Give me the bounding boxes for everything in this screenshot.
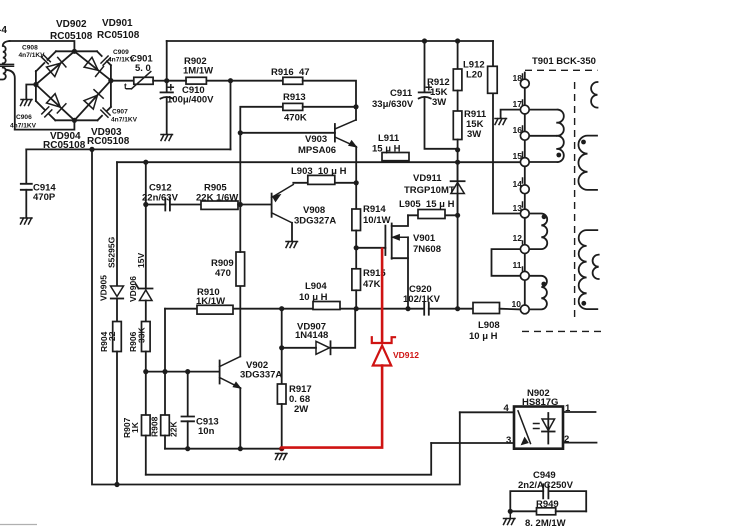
capacitor C907 on bottom-right corner diagonal bbox=[98, 107, 138, 124]
node emitter run C913 bbox=[185, 446, 190, 451]
filter choke lower winding bbox=[0, 68, 6, 80]
svg-text:C906: C906 bbox=[16, 114, 32, 121]
node C911/R911 junction bbox=[455, 147, 460, 152]
svg-text:12: 12 bbox=[513, 233, 523, 243]
svg-text:3: 3 bbox=[506, 435, 511, 446]
ground chassis at emitter run bbox=[276, 454, 288, 460]
thermistor C901 bbox=[124, 54, 153, 92]
wire AC1 top: choke to bridge top node bbox=[10, 41, 75, 51]
svg-text:-4: -4 bbox=[0, 25, 7, 36]
wire choke lower output to AC2 riser bbox=[6, 70, 15, 130]
node bridge right bbox=[108, 78, 113, 83]
T901 pin 13 bbox=[513, 202, 530, 218]
node R913/V903 base junction bbox=[238, 130, 243, 135]
svg-text:33K: 33K bbox=[137, 327, 147, 343]
node emitter run V902 bbox=[238, 446, 243, 451]
svg-text:2W: 2W bbox=[294, 404, 308, 415]
svg-text:R916 47: R916 47 bbox=[271, 67, 310, 78]
svg-text:470P: 470P bbox=[33, 192, 56, 203]
resistor R905 bbox=[196, 183, 241, 210]
ground chassis at R949 bbox=[504, 511, 516, 524]
svg-text:C907: C907 bbox=[112, 109, 128, 116]
svg-text:10: 10 bbox=[512, 299, 522, 309]
T901 pin 12 bbox=[513, 233, 530, 254]
node base line R906/R907 bbox=[143, 369, 148, 374]
svg-text:VD902: VD902 bbox=[56, 19, 87, 30]
secondary winding W2 polarity dot bbox=[581, 140, 586, 145]
ground chassis V908 emitter bbox=[286, 242, 298, 248]
T901 pin 10 bbox=[512, 299, 530, 314]
wire L912 column to T901 pin13 bbox=[493, 213, 520, 215]
resistor R912 bbox=[427, 41, 462, 108]
resistor R910 bbox=[196, 287, 233, 314]
svg-text:L908: L908 bbox=[478, 320, 500, 331]
resistor R913 bbox=[283, 92, 356, 124]
svg-text:18: 18 bbox=[513, 73, 523, 83]
svg-text:3W: 3W bbox=[432, 97, 446, 108]
node VD907/R917 junction bbox=[279, 345, 284, 350]
transistor V902 bbox=[220, 357, 283, 389]
node L1 outer-frame junction bbox=[89, 147, 94, 152]
zener VD906 bbox=[128, 253, 153, 322]
wire L1 left end down to C914 bbox=[25, 149, 27, 183]
svg-text:HS817G: HS817G bbox=[522, 397, 558, 408]
svg-text:1K: 1K bbox=[130, 421, 140, 433]
inductor L911 on L2 bbox=[372, 133, 409, 161]
wire opto pin1 bbox=[563, 411, 596, 413]
svg-text:13: 13 bbox=[513, 203, 523, 213]
node VD905 column on opto pin4 run bbox=[114, 482, 119, 487]
filter choke L (left edge, cut) upper winding bbox=[3, 41, 10, 63]
svg-text:V903: V903 bbox=[305, 134, 327, 145]
node gate junction bbox=[354, 245, 359, 250]
node A junction bbox=[164, 78, 169, 83]
svg-text:L903 10 μ H: L903 10 μ H bbox=[291, 166, 347, 177]
svg-text:L20: L20 bbox=[466, 70, 482, 81]
bridge outer octagon right flat bbox=[110, 65, 112, 107]
capacitor C906 on bottom-left corner diagonal bbox=[10, 101, 55, 130]
wire V908 emitter to ground bbox=[291, 223, 293, 241]
wire drain column down to out rail bbox=[457, 162, 459, 309]
capacitor C914 bbox=[21, 183, 57, 218]
T901 pin 11 bbox=[513, 260, 530, 280]
svg-text:14: 14 bbox=[513, 179, 523, 189]
svg-text:22K 1/6W: 22K 1/6W bbox=[196, 193, 238, 204]
capacitor C910 electrolytic bbox=[161, 81, 215, 134]
T901 pin 14 bbox=[513, 178, 530, 194]
svg-text:1M/1W: 1M/1W bbox=[183, 66, 213, 77]
svg-text:V908: V908 bbox=[303, 205, 325, 216]
svg-text:MPSA06: MPSA06 bbox=[298, 145, 336, 156]
svg-text:VD912: VD912 bbox=[393, 350, 419, 360]
svg-text:VD906: VD906 bbox=[128, 276, 138, 302]
svg-text:10 μ H: 10 μ H bbox=[299, 292, 328, 303]
capacitor C920 bbox=[403, 284, 473, 315]
node top rail C911 bbox=[422, 38, 427, 43]
svg-text:3W: 3W bbox=[467, 129, 481, 140]
wire frame R907 to opto pin3 run bbox=[146, 443, 431, 475]
svg-text:10n: 10n bbox=[198, 426, 215, 437]
svg-text:15V: 15V bbox=[136, 253, 146, 268]
secondary winding W3 bbox=[579, 230, 598, 309]
svg-text:10 μ H: 10 μ H bbox=[469, 331, 498, 342]
zener VD912 (red) bbox=[282, 249, 420, 448]
wire V908 base bbox=[240, 204, 271, 206]
node L2 R906 tap bbox=[143, 160, 148, 165]
svg-text:4n7/1KV: 4n7/1KV bbox=[10, 123, 37, 130]
svg-text:22n/63V: 22n/63V bbox=[142, 193, 179, 204]
inductor L903 bbox=[291, 166, 356, 184]
svg-text:RC05108: RC05108 bbox=[87, 136, 130, 147]
svg-text:17: 17 bbox=[513, 99, 523, 109]
wire V903 emitter down to L903 node bbox=[355, 147, 357, 183]
wire C901 to node A bbox=[153, 80, 167, 82]
transistor V908 bbox=[272, 185, 337, 227]
wire node B riser down to L1 rail bbox=[230, 81, 232, 150]
node C912 tap bbox=[143, 202, 148, 207]
T901 pin 18 bbox=[513, 73, 530, 88]
filter choke core bbox=[0, 64, 14, 66]
wire T901 pin column bbox=[524, 73, 526, 310]
node emitter run R917 and red net bbox=[279, 446, 284, 451]
node pin15 tap on drain column bbox=[455, 160, 460, 165]
svg-text:R908: R908 bbox=[150, 416, 160, 437]
secondary winding W2 bbox=[578, 136, 597, 190]
svg-text:4n7/1KV: 4n7/1KV bbox=[111, 117, 138, 124]
svg-text:RC05108: RC05108 bbox=[50, 31, 93, 42]
svg-text:C908: C908 bbox=[22, 45, 38, 52]
svg-text:L904: L904 bbox=[305, 281, 327, 292]
inductor L904 bbox=[299, 281, 340, 310]
wire bridge right node to C901 bbox=[111, 80, 134, 82]
bridge outer octagon bottom flat bbox=[55, 119, 97, 121]
wire VD907 branch left bbox=[281, 309, 283, 348]
node rail R917 tap bbox=[279, 306, 284, 311]
resistor R917 bbox=[277, 348, 311, 449]
wire node A riser to top rail bbox=[166, 41, 168, 81]
transistor V903 bbox=[298, 120, 357, 156]
svg-text:8. 2M/1W: 8. 2M/1W bbox=[525, 518, 566, 529]
diode VD902 on top-left chord bbox=[36, 19, 93, 85]
diode VD904 on bottom-left chord bbox=[36, 85, 86, 152]
svg-text:470: 470 bbox=[215, 268, 231, 279]
node L905/VD911 junction bbox=[455, 213, 460, 218]
svg-text:C911: C911 bbox=[390, 88, 413, 99]
ground chassis at bridge left bbox=[21, 100, 33, 106]
resistor R916 bbox=[231, 67, 357, 120]
svg-text:22K: 22K bbox=[169, 421, 179, 437]
svg-text:5. 0: 5. 0 bbox=[135, 63, 151, 74]
svg-text:102/1KV: 102/1KV bbox=[403, 294, 441, 305]
T901 dashed core line bbox=[574, 82, 576, 318]
svg-text:4n7/1KV: 4n7/1KV bbox=[19, 52, 46, 59]
wire R913 left leg bbox=[240, 107, 283, 133]
resistor R904 bbox=[99, 322, 121, 485]
svg-text:2n2/AC250V: 2n2/AC250V bbox=[518, 480, 574, 491]
svg-text:T901 BCK-350: T901 BCK-350 bbox=[532, 56, 596, 67]
wire opto pin4 bbox=[460, 411, 514, 413]
capacitor C949 bbox=[510, 470, 586, 511]
capacitor C913 bbox=[182, 372, 219, 449]
node base line C913 bbox=[185, 369, 190, 374]
svg-text:15 μ H: 15 μ H bbox=[372, 144, 401, 155]
T901 dashed top border bbox=[525, 69, 598, 71]
T901 pin 16 bbox=[513, 125, 530, 140]
resistor R902 bbox=[167, 56, 231, 84]
wire V902 emitter ground run bbox=[165, 448, 282, 450]
resistor R914 bbox=[352, 183, 391, 248]
svg-text:10/1W: 10/1W bbox=[363, 215, 390, 226]
node bridge bottom bbox=[72, 118, 77, 123]
svg-text:11: 11 bbox=[513, 260, 522, 270]
winding C pin11-pin10 bbox=[529, 276, 547, 310]
wire opto pin3 bbox=[431, 442, 514, 444]
resistor R907 bbox=[122, 372, 150, 475]
node drain column at out rail bbox=[455, 306, 460, 311]
wire top rail bbox=[167, 40, 493, 42]
svg-text:3DG337A: 3DG337A bbox=[240, 370, 282, 381]
svg-text:VD905: VD905 bbox=[99, 275, 109, 301]
inductor L908 bbox=[469, 303, 520, 343]
winding A pin17-pin15 bbox=[529, 110, 564, 163]
wire outer-left frame down to opto pin4 run bbox=[92, 149, 460, 484]
winding A polarity dot bbox=[556, 153, 561, 158]
ground chassis at pin17 bbox=[501, 110, 521, 118]
node R913/R916/V903 collector bbox=[353, 104, 358, 109]
wire V902 base line bbox=[146, 371, 220, 373]
node top rail R912 bbox=[455, 38, 460, 43]
svg-text:1K/1W: 1K/1W bbox=[196, 296, 225, 307]
svg-text:470K: 470K bbox=[284, 113, 307, 124]
wire V902 emitter down bbox=[239, 388, 241, 449]
wire output rail left segment bbox=[165, 308, 424, 310]
wire V903 base line bbox=[240, 132, 335, 134]
svg-text:L905 15 μ H: L905 15 μ H bbox=[399, 199, 455, 210]
node rail V901 source tap bbox=[405, 306, 410, 311]
wire V902 collector to R909 bbox=[239, 286, 241, 357]
resistor R949 bbox=[510, 499, 586, 529]
bridge outer octagon top flat bbox=[56, 50, 97, 52]
svg-text:S5295G: S5295G bbox=[107, 236, 117, 268]
svg-text:1N4148: 1N4148 bbox=[295, 330, 328, 341]
svg-text:33μ/630V: 33μ/630V bbox=[372, 99, 414, 110]
svg-text:R914: R914 bbox=[363, 204, 386, 215]
svg-text:R949: R949 bbox=[536, 499, 559, 510]
wire L1 rail bbox=[26, 148, 230, 150]
wire R913 column bbox=[239, 133, 241, 205]
node B junction bbox=[228, 78, 233, 83]
capacitor C911 electrolytic bbox=[372, 41, 458, 149]
svg-text:VD901: VD901 bbox=[102, 18, 133, 29]
svg-text:TRGP10MT: TRGP10MT bbox=[404, 185, 455, 196]
svg-text:47K: 47K bbox=[363, 279, 381, 290]
capacitor C908 on top-left corner diagonal bbox=[19, 45, 57, 72]
optocoupler N902 bbox=[504, 388, 572, 449]
scan artifact line bottom-left bbox=[0, 524, 37, 526]
inductor L905 bbox=[399, 199, 458, 219]
wire L2 rail (drain sense line to T901 pin 15) bbox=[117, 161, 520, 163]
resistor R909 bbox=[211, 205, 245, 287]
inductor L912 bbox=[463, 41, 497, 214]
T901 dashed bottom border bbox=[522, 330, 602, 332]
node V908 base junction bbox=[238, 202, 243, 207]
diode VD905 bbox=[99, 236, 124, 321]
ground chassis below C910 bbox=[161, 135, 173, 141]
node C949/R949 ground junction bbox=[508, 509, 513, 514]
secondary winding W3 inner coil bbox=[593, 255, 599, 279]
wire AC2 bottom run to bridge bottom node bbox=[15, 120, 75, 129]
node base line rail column bbox=[162, 369, 167, 374]
resistor R908 bbox=[150, 309, 179, 449]
svg-text:22: 22 bbox=[107, 331, 117, 341]
winding A tap pin16 bbox=[529, 135, 556, 137]
node L903/R914 junction bbox=[354, 180, 359, 185]
svg-text:C909: C909 bbox=[113, 49, 129, 56]
wire VD905 column upper bbox=[116, 162, 118, 285]
wire opto pin2 bbox=[563, 442, 597, 444]
svg-text:V901: V901 bbox=[413, 233, 436, 244]
svg-text:VD911: VD911 bbox=[413, 173, 442, 184]
wire pins 12-11 short bracket bbox=[492, 249, 521, 276]
capacitor C909 on top-right corner diagonal bbox=[97, 49, 135, 65]
wire bridge left node to chassis bbox=[26, 85, 36, 99]
winding B pin13-pin12 bbox=[529, 214, 547, 250]
svg-text:15: 15 bbox=[513, 151, 523, 161]
T901 pin 15 bbox=[513, 151, 530, 166]
node rail R915 tap bbox=[354, 306, 359, 311]
diode VD907 bbox=[282, 309, 356, 355]
diode VD901 on top-right chord bbox=[74, 18, 139, 80]
winding B polarity dot bbox=[542, 214, 547, 219]
winding C polarity dot bbox=[541, 282, 546, 287]
resistor R915 bbox=[352, 248, 387, 309]
bridge outer octagon left flat bbox=[35, 71, 37, 101]
svg-text:R913: R913 bbox=[283, 92, 306, 103]
node bridge top bbox=[72, 49, 77, 54]
capacitor C912 bbox=[142, 183, 201, 211]
svg-text:7N608: 7N608 bbox=[413, 244, 441, 255]
resistor R911 bbox=[453, 91, 487, 150]
svg-text:RC05108: RC05108 bbox=[97, 30, 140, 41]
wire R906 column upper bbox=[145, 162, 147, 288]
svg-text:3DG327A: 3DG327A bbox=[294, 216, 336, 227]
T901 pin 17 bbox=[513, 99, 530, 114]
node bridge left bbox=[33, 82, 38, 87]
ground chassis below C914 bbox=[21, 218, 33, 224]
svg-text:16: 16 bbox=[513, 125, 523, 135]
secondary winding W1 bbox=[591, 82, 597, 108]
resistor R906 bbox=[128, 322, 150, 372]
mosfet V901 bbox=[356, 215, 441, 308]
diode VD911 bbox=[404, 150, 465, 215]
diode VD903 on bottom-right chord bbox=[74, 80, 129, 147]
secondary winding W3 polarity dot bbox=[581, 301, 586, 306]
svg-text:L911: L911 bbox=[378, 133, 400, 144]
svg-text:100μ/400V: 100μ/400V bbox=[167, 95, 214, 106]
svg-text:t: t bbox=[124, 81, 127, 91]
